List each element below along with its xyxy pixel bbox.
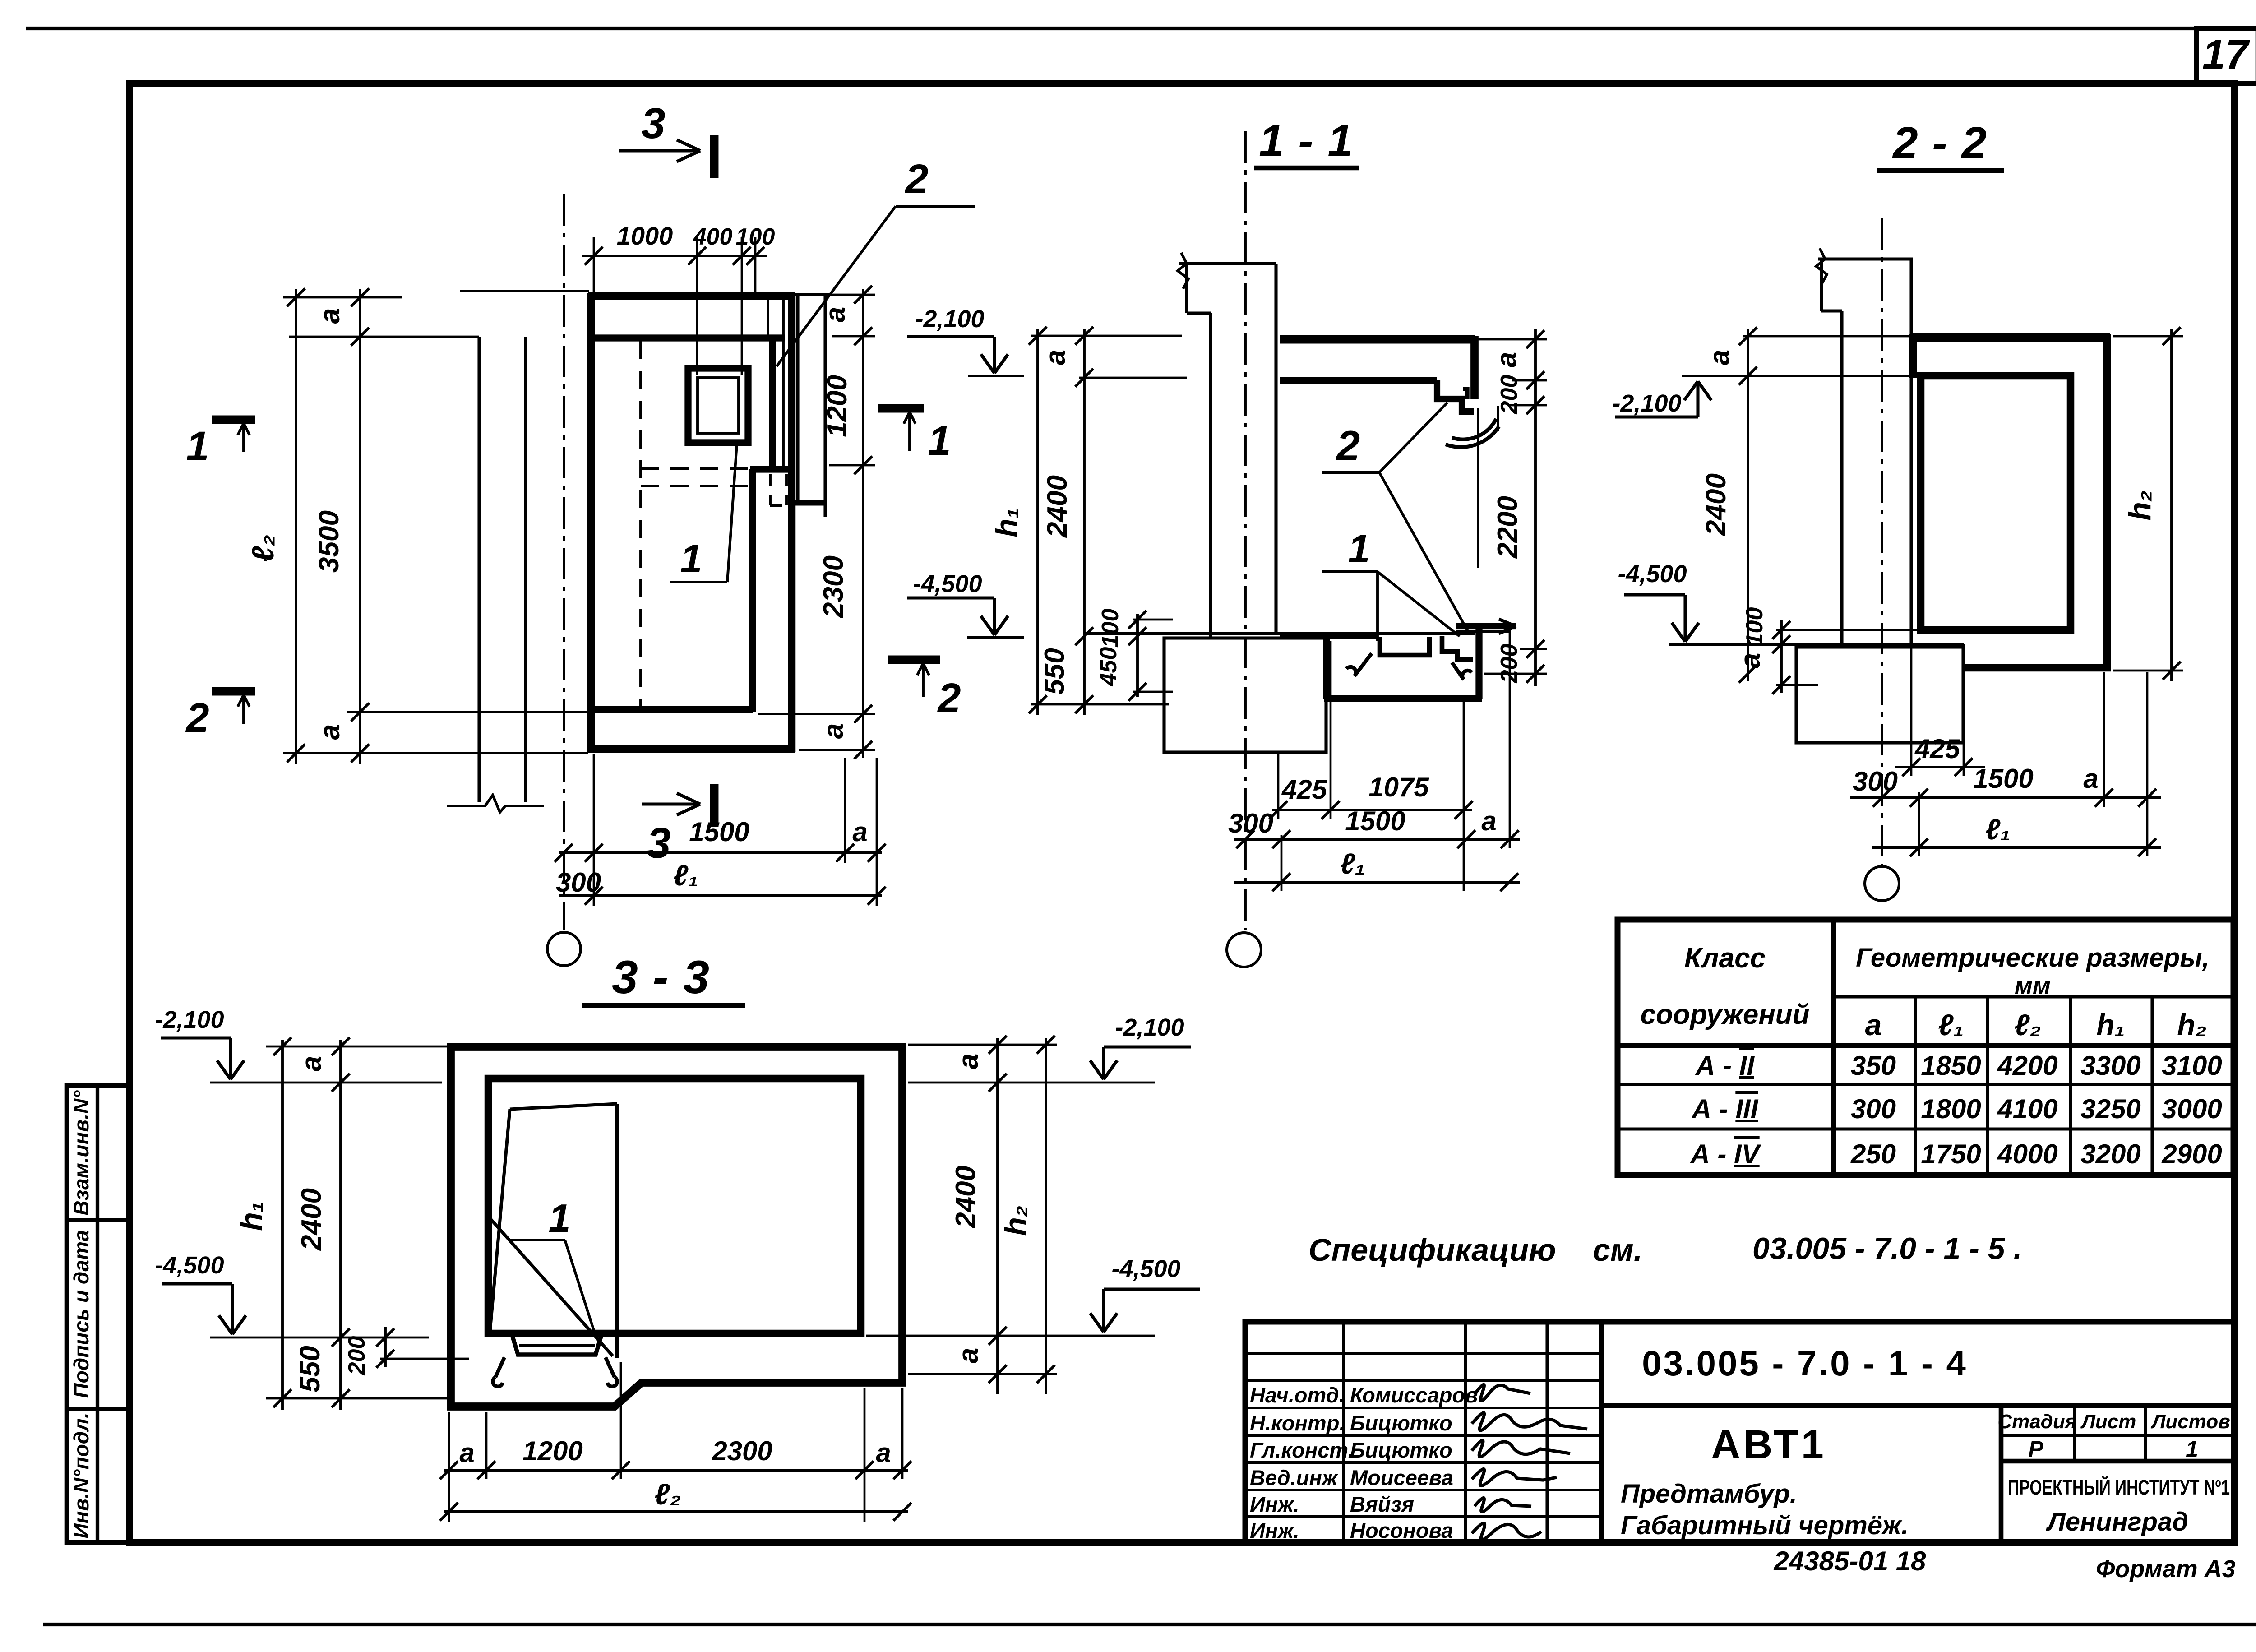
section 3-3 left extension lines: [266, 1046, 449, 1048]
svg-text:Предтамбур.: Предтамбур.: [1621, 1479, 1797, 1509]
svg-text:a: a: [2083, 764, 2098, 794]
svg-text:1800: 1800: [1921, 1094, 1981, 1124]
extension lines for top dims: [593, 237, 595, 298]
section 2-2 top slab (thick): [1912, 333, 2110, 342]
svg-text:2400: 2400: [296, 1188, 327, 1251]
svg-text:03.005 - 7.0 - 1 - 4: 03.005 - 7.0 - 1 - 4: [1642, 1343, 1968, 1383]
svg-text:3: 3: [647, 819, 670, 867]
svg-text:a: a: [1040, 350, 1071, 365]
svg-text:Инж.: Инж.: [1250, 1518, 1299, 1542]
svg-text:h₁: h₁: [234, 1201, 268, 1231]
svg-text:1500: 1500: [1973, 764, 2033, 794]
section 1-1 left extension lines: [1031, 335, 1182, 337]
plan section marker 1 right: [878, 404, 924, 413]
section marker 3 top: arrow and tick: [619, 149, 700, 152]
svg-text:a: a: [1865, 1008, 1882, 1041]
section 1-1 left dim line h1: [1036, 329, 1039, 715]
plan section marker 2 left: [212, 687, 255, 696]
stage/sheet mini table: [2073, 1406, 2076, 1461]
section 1-1 floor recess step (thick): [1323, 634, 1330, 699]
plan left dim line l2: [295, 289, 297, 764]
section 1-1 axis circle: [1227, 933, 1261, 967]
svg-text:Инв.N°подл.: Инв.N°подл.: [69, 1412, 93, 1538]
section 2-2 bottom dim 425: [1895, 766, 1985, 768]
section 3-3 door leaf: [510, 1104, 617, 1109]
section 1-1 door head profile: [1463, 389, 1467, 399]
svg-text:мм: мм: [2015, 972, 2051, 999]
sheet bottom edge line: [43, 1623, 2256, 1626]
svg-text:4100: 4100: [1997, 1094, 2057, 1124]
svg-text:350: 350: [1851, 1050, 1896, 1081]
plan outer bottom wall (thick): [588, 745, 795, 753]
svg-text:1200: 1200: [822, 375, 853, 437]
svg-text:-2,100: -2,100: [1612, 390, 1681, 417]
top dimension line 1000/400/100: [582, 255, 767, 257]
svg-text:100: 100: [1097, 609, 1123, 648]
section 1-1 door leaf open line: [1477, 408, 1479, 568]
plan axis line (dash-dot): [563, 194, 565, 930]
section 2-2 bottom dim l1: [1872, 846, 2161, 849]
section 1-1 existing wall: [1179, 262, 1276, 265]
section 2-2 foundation block: [1796, 647, 1963, 743]
svg-text:ℓ₂: ℓ₂: [246, 534, 280, 562]
section 3-3 bottom dim l2: [444, 1510, 908, 1513]
section 2-2 right extension lines: [2113, 335, 2183, 338]
section 1-1 bottom extension lines: [1277, 754, 1280, 819]
svg-text:1 - 1: 1 - 1: [1259, 116, 1354, 166]
section 1-1 door sill profile: [1442, 636, 1473, 660]
plan inner top wall line (thick): [594, 334, 785, 341]
section 2-2 existing wall: [1818, 257, 1913, 260]
svg-text:03.005 - 7.0 - 1 - 5 .: 03.005 - 7.0 - 1 - 5 .: [1752, 1231, 2022, 1266]
svg-text:3200: 3200: [2080, 1139, 2140, 1169]
svg-text:Вяйзя: Вяйзя: [1350, 1492, 1414, 1516]
svg-text:Вед.инж: Вед.инж: [1250, 1466, 1339, 1490]
svg-text:Лист: Лист: [2080, 1411, 2136, 1433]
svg-text:h₁: h₁: [989, 508, 1024, 537]
plan bottom dim line 300/1500/a: [559, 851, 882, 854]
svg-text:-4,500: -4,500: [155, 1252, 224, 1279]
svg-text:Класс: Класс: [1684, 943, 1766, 974]
title block doc number zone divider: [1601, 1403, 2234, 1408]
svg-text:ℓ₁: ℓ₁: [673, 859, 698, 892]
plan outer right wall (thick): [788, 293, 796, 752]
svg-text:2900: 2900: [2161, 1139, 2222, 1169]
svg-text:3100: 3100: [2162, 1050, 2222, 1081]
section 2-2 axis line: [1881, 218, 1883, 865]
svg-text:Стадия: Стадия: [1997, 1411, 2076, 1433]
ventilation window opening (plan, thick): [688, 368, 748, 443]
svg-text:425: 425: [1914, 734, 1961, 764]
section 2-2 right dim line h2: [2170, 329, 2173, 681]
title block signature rows: [1245, 1352, 1601, 1355]
svg-text:ПРОЕКТНЫЙ ИНСТИТУТ Nº1: ПРОЕКТНЫЙ ИНСТИТУТ Nº1: [2008, 1476, 2230, 1499]
svg-text:2200: 2200: [1492, 496, 1523, 559]
svg-text:Нач.отд.: Нач.отд.: [1250, 1383, 1345, 1407]
section 2-2 bottom extension lines: [1910, 647, 1913, 776]
svg-text:сооружений: сооружений: [1640, 999, 1809, 1030]
svg-text:a: a: [314, 724, 346, 740]
svg-text:1850: 1850: [1921, 1050, 1981, 1081]
svg-text:Бицютко: Бицютко: [1350, 1411, 1452, 1435]
svg-text:Геометрические размеры,: Геометрические размеры,: [1856, 943, 2210, 972]
svg-text:a: a: [876, 1438, 891, 1468]
svg-text:Моисеева: Моисеева: [1350, 1466, 1453, 1490]
svg-text:1750: 1750: [1921, 1139, 1981, 1169]
svg-text:a: a: [296, 1056, 327, 1071]
svg-text:a: a: [852, 817, 867, 847]
svg-text:2300: 2300: [818, 555, 849, 618]
svg-text:А - III: А - III: [1691, 1094, 1759, 1124]
section 1-1 floor channel tray: [1380, 637, 1429, 655]
plan structure outer top wall (thick): [588, 292, 795, 300]
svg-text:1500: 1500: [689, 817, 749, 847]
plan bottom extension lines: [593, 754, 595, 906]
svg-text:ℓ₁: ℓ₁: [1340, 847, 1365, 880]
svg-text:200: 200: [344, 1336, 370, 1376]
table: class of structures / geometric sizes: [1618, 920, 2233, 1175]
svg-text:425: 425: [1281, 774, 1328, 805]
svg-text:a: a: [818, 723, 849, 739]
svg-text:h₂: h₂: [999, 1205, 1033, 1236]
section 2-2 floor level line: [1669, 643, 1964, 646]
svg-text:300: 300: [1228, 808, 1273, 838]
svg-text:300: 300: [1851, 1094, 1896, 1124]
section 3-3 anchor hooks: [493, 1357, 504, 1387]
plan right extension lines: [799, 294, 875, 296]
plan right jamb verticals: [767, 299, 769, 338]
section 1-1 leader 1: [1322, 570, 1378, 573]
svg-text:1: 1: [549, 1196, 571, 1240]
svg-text:Подпись и дата: Подпись и дата: [69, 1230, 93, 1398]
svg-text:2 - 2: 2 - 2: [1892, 118, 1988, 168]
svg-text:1000: 1000: [617, 222, 673, 250]
svg-text:ℓ₁: ℓ₁: [1938, 1008, 1964, 1041]
svg-text:a: a: [953, 1348, 984, 1363]
svg-text:-4,500: -4,500: [1618, 560, 1687, 588]
section marker 3 bottom: tick and arrow: [710, 784, 719, 827]
plan axis circle: [547, 932, 581, 966]
svg-text:450: 450: [1096, 647, 1122, 687]
svg-text:Инж.: Инж.: [1250, 1492, 1299, 1516]
section 2-2 right wall (thick): [2103, 334, 2111, 671]
section 1-1 small dim 100/450: [1136, 614, 1139, 697]
svg-text:2: 2: [185, 695, 209, 741]
svg-text:a: a: [1481, 806, 1496, 836]
svg-text:3250: 3250: [2080, 1094, 2140, 1124]
plan bottom dim line l1: [559, 894, 882, 897]
section 3-3 right dim line a/2400/a: [996, 1038, 999, 1394]
svg-text:1: 1: [680, 536, 703, 581]
svg-text:2: 2: [1336, 422, 1360, 469]
svg-text:-4,500: -4,500: [913, 570, 982, 597]
section 1-1 bottom dim l1: [1234, 881, 1520, 884]
svg-text:1200: 1200: [522, 1436, 582, 1466]
title block signature columns: [1342, 1322, 1345, 1542]
svg-text:-2,100: -2,100: [155, 1006, 224, 1033]
section 2-2 left dim line a/2400: [1747, 329, 1749, 681]
svg-text:250: 250: [1850, 1139, 1896, 1169]
svg-text:1: 1: [928, 418, 951, 464]
plan left extension lines: [283, 296, 402, 299]
svg-text:a: a: [820, 307, 851, 322]
plan left dim line a/3500/a: [359, 289, 361, 764]
svg-text:Габаритный чертёж.: Габаритный чертёж.: [1621, 1511, 1909, 1540]
section 1-1 anchor hooks: [1346, 653, 1372, 676]
section 1-1 right wall top (thick): [1470, 336, 1479, 399]
svg-text:ℓ₂: ℓ₂: [654, 1477, 681, 1511]
section 1-1 axis line: [1244, 131, 1247, 930]
section 1-1 floor slab (thick): [1280, 632, 1377, 639]
svg-text:Р: Р: [2028, 1436, 2043, 1462]
wall break line bottom: [447, 795, 544, 812]
svg-text:4000: 4000: [1997, 1139, 2057, 1169]
sidebar stamp column: [67, 1086, 129, 1542]
svg-text:24385-01 18: 24385-01 18: [1774, 1546, 1927, 1576]
svg-text:Бицютко: Бицютко: [1350, 1438, 1452, 1462]
section 2-2 bottom slab (thick): [1964, 664, 2111, 672]
section 1-1 top slab (thick): [1280, 335, 1475, 344]
section 1-1 left dim line a/2400/550: [1083, 329, 1086, 715]
section 2-2 bottom dim 300/1500/a: [1850, 796, 2161, 799]
plan leader 1 to window: [727, 444, 737, 582]
svg-text:a: a: [1704, 350, 1735, 365]
svg-text:1: 1: [2186, 1436, 2198, 1462]
section 3-3 right dim line h2: [1045, 1038, 1047, 1394]
section 3-3 left dim line a/2400/550: [339, 1040, 342, 1410]
section 3-3 bottom dim a/1200/2300/a: [444, 1469, 908, 1472]
section 2-2 small dim 100/a: [1780, 620, 1783, 693]
svg-text:4200: 4200: [1997, 1050, 2057, 1081]
section 1-1 bottom dim 300/1500/a: [1234, 838, 1520, 841]
svg-text:АВТ1: АВТ1: [1711, 1422, 1826, 1467]
plan section marker 1 left: [212, 416, 255, 424]
section 1-1 foundation block: [1164, 638, 1326, 752]
svg-text:ℓ₁: ℓ₁: [1985, 813, 2011, 846]
svg-text:А - II: А - II: [1695, 1050, 1755, 1081]
svg-text:1075: 1075: [1368, 772, 1429, 802]
section 1-1 floor level line: [1084, 632, 1475, 635]
svg-text:2400: 2400: [1701, 473, 1732, 536]
svg-text:3: 3: [641, 99, 665, 148]
plan outside band beyond door: [796, 295, 799, 503]
svg-text:550: 550: [1039, 648, 1070, 694]
svg-text:2400: 2400: [950, 1166, 981, 1228]
svg-text:3 - 3: 3 - 3: [612, 951, 710, 1004]
section 2-2 back wall inner outline (thick): [1921, 376, 2071, 630]
svg-text:Комиссаров: Комиссаров: [1350, 1383, 1478, 1407]
svg-text:Формат А3: Формат А3: [2096, 1555, 2235, 1583]
svg-text:Носонова: Носонова: [1350, 1518, 1453, 1542]
svg-text:-2,100: -2,100: [1115, 1014, 1184, 1041]
svg-text:a: a: [314, 308, 346, 324]
existing building wall (plan): [460, 290, 589, 292]
svg-text:400: 400: [693, 224, 733, 250]
plan leader 2 to door frame: [777, 206, 896, 366]
section 3-3 left dim line h1: [281, 1040, 284, 1410]
svg-text:А - IV: А - IV: [1689, 1139, 1761, 1169]
svg-text:1: 1: [1348, 526, 1370, 571]
svg-text:2: 2: [904, 156, 928, 202]
plan section marker 2 right: [888, 656, 940, 664]
svg-text:2300: 2300: [712, 1436, 772, 1466]
svg-text:h₂: h₂: [2177, 1008, 2206, 1041]
svg-text:a: a: [953, 1054, 984, 1069]
sheet number box: [2196, 28, 2256, 83]
svg-text:-4,500: -4,500: [1111, 1255, 1180, 1282]
signature squiggles: [1475, 1384, 1530, 1401]
svg-text:3000: 3000: [2162, 1094, 2222, 1124]
section 1-1 right dim line a/200/2200/200: [1534, 329, 1537, 686]
svg-text:Гл.конст.: Гл.конст.: [1250, 1438, 1354, 1462]
svg-text:17: 17: [2202, 32, 2250, 78]
svg-text:3500: 3500: [314, 510, 345, 573]
svg-text:h₁: h₁: [2096, 1008, 2125, 1041]
section 1-1 right extension lines: [1478, 338, 1547, 341]
section 2-2 left extension lines: [1743, 335, 1912, 338]
section 3-3 right extension lines: [908, 1044, 1057, 1046]
section 2-2 axis circle: [1865, 866, 1899, 901]
svg-text:3300: 3300: [2080, 1050, 2140, 1081]
section 1-1 door swing arc (double): [1452, 419, 1496, 440]
section 1-1 door lintel step (thick): [1437, 380, 1474, 412]
svg-text:a: a: [459, 1438, 474, 1468]
section 3-3 threshold tray: [513, 1337, 601, 1355]
svg-text:ℓ₂: ℓ₂: [2014, 1008, 2041, 1041]
section 1-1 threshold plate with arrow: [1456, 623, 1516, 629]
svg-text:a: a: [1491, 352, 1522, 367]
title block outer: [1245, 1322, 2234, 1542]
section 1-1 ceiling line (thick): [1280, 377, 1437, 384]
section 1-1 leader 2: [1322, 471, 1379, 474]
svg-text:Спецификацию: Спецификацию: [1308, 1232, 1556, 1268]
svg-text:Ленинград: Ленинград: [2046, 1507, 2188, 1536]
hidden contour dashed lines: [639, 341, 642, 708]
svg-text:a: a: [1735, 653, 1766, 668]
svg-text:Листов: Листов: [2150, 1411, 2230, 1433]
svg-text:см.: см.: [1593, 1232, 1642, 1268]
plan right dim line a/1200/2300/a: [862, 289, 864, 758]
svg-text:h₂: h₂: [2123, 490, 2157, 520]
svg-text:550: 550: [295, 1346, 326, 1392]
plan doorway step (thick): [750, 466, 792, 472]
svg-text:1: 1: [186, 423, 209, 469]
section 3-3 small dim 200: [384, 1327, 387, 1367]
section 3-3 inner room outline (thick): [488, 1078, 861, 1333]
svg-text:2: 2: [937, 675, 961, 721]
svg-text:-2,100: -2,100: [915, 305, 984, 333]
section 3-3 outer outline (thick): [451, 1047, 902, 1407]
section 3-3 bottom extension lines: [448, 1412, 450, 1522]
svg-text:100: 100: [1742, 607, 1768, 647]
plan structure left wall (thick): [587, 293, 595, 752]
svg-text:1500: 1500: [1345, 806, 1405, 836]
plan inner bottom wall line (thick): [592, 706, 753, 713]
svg-text:300: 300: [1853, 766, 1898, 796]
svg-text:2400: 2400: [1042, 475, 1073, 538]
section 1-1 bottom dim 425/1075: [1272, 809, 1472, 811]
svg-text:Н.контр.: Н.контр.: [1250, 1411, 1345, 1435]
svg-text:Взам.инв.N°: Взам.инв.N°: [69, 1090, 93, 1216]
sheet top edge line: [26, 27, 2256, 30]
